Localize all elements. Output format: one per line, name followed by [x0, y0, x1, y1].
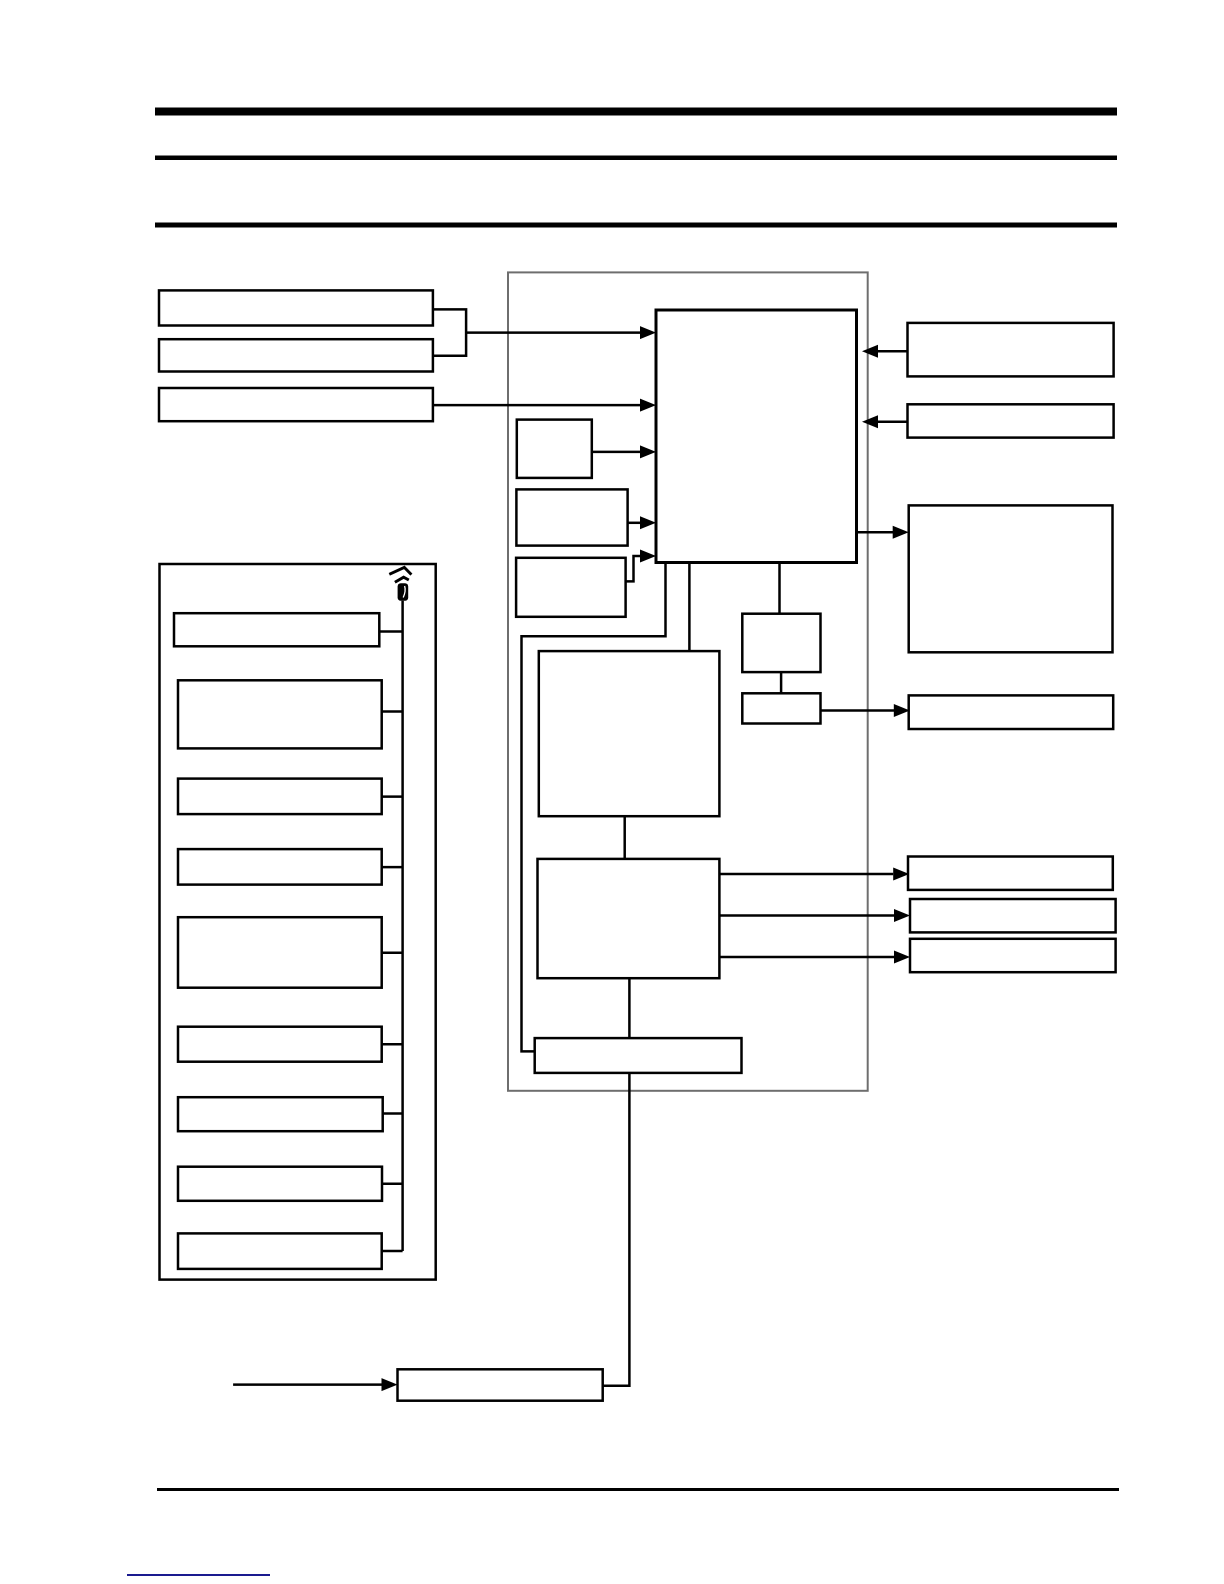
wire S1 to main IC: [592, 451, 641, 454]
main IC block: [656, 310, 857, 563]
arrowhead S1 into main IC: [640, 445, 656, 458]
footer link underline: [127, 1574, 270, 1576]
box L1 key row: [174, 613, 379, 646]
arrowhead R1 into main IC: [862, 345, 878, 358]
box M2 lower processor: [538, 859, 720, 978]
box B below box A: [742, 693, 820, 723]
box L3 key row: [178, 779, 382, 815]
arrowhead into R5: [893, 868, 909, 881]
box S3 small left: [516, 558, 626, 617]
arrowhead S3 into main IC: [640, 550, 656, 563]
wire S3 jog to main IC: [626, 556, 641, 581]
wire L5 to bus: [382, 951, 403, 954]
wire L8 to bus: [382, 1183, 403, 1186]
wire main IC to M1: [688, 563, 691, 652]
wire M1 to M2: [623, 816, 626, 859]
box A below main IC: [742, 614, 820, 672]
wire box B to R4: [821, 709, 895, 712]
header rule lower: [155, 223, 1117, 228]
arrowhead into R3: [893, 526, 909, 539]
arrowhead into R7: [894, 951, 910, 964]
wire box A to box B: [780, 672, 783, 693]
wire main IC down-left to long box: [522, 563, 666, 1052]
bottom output box: [398, 1369, 603, 1400]
arrowhead into R4: [894, 704, 910, 717]
box S2 small left: [516, 489, 627, 545]
box L8 key row: [178, 1167, 382, 1201]
box T2 second input: [159, 339, 433, 371]
arrowhead R2 into main IC: [862, 415, 878, 428]
arrowhead S2 into main IC: [640, 516, 656, 529]
wire M2 to long box: [628, 978, 631, 1038]
wire M2 to R6: [719, 914, 894, 917]
box T3 third input: [159, 388, 433, 421]
wire S2 to main IC: [628, 522, 641, 525]
wire main IC to box A: [778, 563, 781, 614]
remote control icon body: [398, 583, 409, 601]
footer rule: [157, 1488, 1119, 1491]
wire M2 to R7: [719, 956, 894, 959]
left key/control container: [160, 564, 436, 1280]
wire L4 to bus: [382, 866, 403, 869]
box R6 right: [910, 899, 1116, 932]
wire long box to bottom box: [603, 1073, 630, 1386]
box R2 right: [908, 404, 1114, 437]
remote control icon highlight: [403, 586, 405, 598]
wire bracket T1/T2: [433, 309, 641, 355]
box L5 key row: [178, 917, 382, 988]
box M1 middle processor: [539, 651, 720, 816]
box R3 right large: [909, 505, 1113, 652]
box L6 key row: [178, 1027, 382, 1062]
wire L2 to bus: [382, 710, 403, 713]
key bus vertical wire: [401, 601, 404, 1251]
wire L3 to bus: [382, 795, 403, 798]
box L9 key row: [178, 1233, 382, 1269]
arrowhead into main IC from T1/T2: [640, 326, 656, 339]
header rule middle: [155, 156, 1117, 161]
wire main IC to R3: [857, 531, 894, 534]
box R5 right: [908, 857, 1113, 890]
arrowhead T3 into main IC: [640, 399, 656, 412]
box R7 right: [910, 939, 1116, 972]
box T1 top-left input: [159, 290, 433, 325]
remote control icon waves: [389, 567, 411, 582]
box L2 key row: [178, 680, 382, 748]
wire R2 to main IC: [878, 421, 908, 424]
wire L7 to bus: [383, 1112, 403, 1115]
long box bottom of container: [535, 1038, 742, 1073]
header rule thick: [155, 108, 1117, 116]
gray tuner section container: [508, 272, 868, 1090]
box L4 key row: [178, 849, 382, 885]
wire T3 to main IC: [433, 404, 641, 407]
box R1 right top: [908, 323, 1114, 377]
box R4 right: [909, 695, 1113, 729]
wire input to bottom box: [233, 1383, 382, 1386]
wire L6 to bus: [382, 1043, 403, 1046]
wire L9 to bus: [382, 1250, 403, 1253]
box S1 small left: [517, 420, 592, 478]
arrowhead into R6: [894, 909, 910, 922]
wire M2 to R5: [719, 873, 893, 876]
box L7 key row: [178, 1097, 383, 1131]
wire R1 to main IC: [878, 350, 908, 353]
arrowhead into bottom box: [382, 1378, 398, 1391]
wire L1 to bus: [379, 630, 402, 633]
